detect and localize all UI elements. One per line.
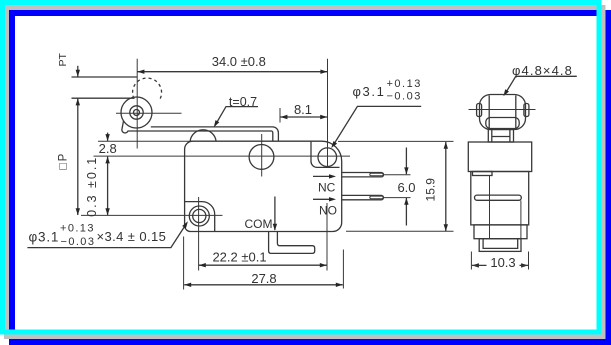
- svg-text:□P: □P: [58, 152, 70, 170]
- NC terminal extension: [384, 174, 411, 176]
- 15.9 down arrowhead: [444, 224, 448, 231]
- 34.0 right extension line: [327, 59, 329, 167]
- 8.1 left extension line: [279, 108, 281, 123]
- 15.9 up arrowhead: [444, 142, 448, 149]
- side view roller pins: [477, 104, 482, 117]
- OP up arrowhead: [76, 98, 80, 105]
- arrowheads for 22.2: [199, 263, 206, 267]
- phi3.1 bottom label leader: [27, 226, 185, 248]
- PT upper reference line: [72, 76, 138, 78]
- side view body middle section: [471, 172, 529, 225]
- NO terminal slot: [370, 196, 383, 199]
- 27.8 left extension: [183, 237, 185, 290]
- side view bottom terminal: [479, 239, 521, 252]
- svg-text:+0.13: +0.13: [387, 78, 422, 90]
- 2.8 down arrowhead: [105, 134, 109, 141]
- roller outer circle: [121, 97, 152, 128]
- NO leader line: [313, 198, 330, 200]
- svg-text:t=0.7: t=0.7: [229, 95, 257, 109]
- 0.3 down arrowhead: [105, 208, 109, 215]
- 15.9 top extension: [338, 140, 454, 142]
- COM terminal L-shape: [269, 232, 315, 254]
- NO terminal: [342, 195, 384, 199]
- NO terminal extension: [384, 197, 411, 199]
- svg-text:34.0 ±0.8: 34.0 ±0.8: [212, 54, 266, 69]
- arrowheads for 10.3: [472, 263, 479, 267]
- 15.9 bottom extension: [346, 230, 454, 232]
- side view roller centerline: [469, 109, 536, 111]
- side view roller holder: [486, 118, 519, 129]
- PT down arrowhead: [76, 70, 80, 77]
- svg-text:22.2 ±0.1: 22.2 ±0.1: [212, 250, 266, 265]
- side view internal line left: [489, 176, 491, 239]
- 0.3 up arrowhead: [105, 156, 109, 163]
- svg-text:−0.03: −0.03: [387, 91, 422, 103]
- 6.0 lower arrow stem: [405, 198, 407, 226]
- center hole vertical centerline: [261, 134, 263, 177]
- 10.3 right extension: [528, 252, 530, 270]
- 6.0 up arrowhead: [404, 198, 408, 205]
- arrowheads for 34.0: [137, 70, 144, 74]
- dimension 34.0 line: [137, 71, 327, 73]
- roller ring: [130, 106, 143, 119]
- datum centerline through holes: [94, 155, 351, 157]
- NO leader arrowhead: [329, 197, 336, 201]
- svg-text:φ4.8×4.8: φ4.8×4.8: [512, 63, 573, 78]
- dimension 15.9 stem: [445, 142, 447, 231]
- 22.2 right extension: [326, 203, 328, 271]
- phi3.1 top leader arrowhead: [331, 141, 337, 148]
- svg-text:27.8: 27.8: [251, 271, 276, 286]
- svg-text:+0.13: +0.13: [60, 223, 95, 235]
- side view roller: [480, 95, 526, 130]
- 10.3 left extension: [470, 252, 472, 270]
- roller vertical centerline / 34.0 left extension: [136, 59, 138, 149]
- center top hole: [249, 145, 274, 170]
- svg-text:PT: PT: [57, 53, 69, 67]
- t=0.7 leader arrowhead: [214, 120, 220, 127]
- NC terminal: [342, 173, 384, 177]
- side view small tab: [473, 172, 493, 176]
- OP dimension stem: [77, 99, 79, 215]
- NC leader arrowhead: [329, 174, 336, 178]
- svg-text:−0.03: −0.03: [61, 236, 96, 248]
- 6.0 down arrowhead: [404, 167, 408, 174]
- side view body lower section: [474, 225, 527, 239]
- internal boss around bottom-left mounting hole: [185, 202, 215, 232]
- svg-text:6.0: 6.0: [397, 180, 415, 195]
- svg-text:2.8: 2.8: [99, 141, 117, 156]
- OP down arrowhead: [76, 208, 80, 215]
- switch body outline: [185, 141, 342, 231]
- side view roller inner lines: [488, 96, 490, 130]
- internal boss around top-right hole: [311, 141, 340, 167]
- side view body upper section: [468, 142, 531, 172]
- svg-text:8.1: 8.1: [294, 102, 312, 117]
- plunger dome on body top: [190, 130, 216, 141]
- dimension 8.1 line: [280, 116, 327, 118]
- bottom-left mounting hole: [189, 206, 209, 226]
- lever arm bottom edge with left hook: [122, 121, 273, 141]
- svg-text:×3.4 ± 0.15: ×3.4 ± 0.15: [97, 229, 167, 244]
- roller pin: [134, 110, 140, 116]
- 6.0 upper arrow stem: [405, 148, 407, 175]
- COM leader line: [274, 197, 276, 231]
- 27.8 right extension: [342, 250, 344, 289]
- phi4.8 label leader: [505, 76, 577, 94]
- COM down arrowhead: [273, 224, 277, 231]
- PT lower reference line: [72, 97, 135, 99]
- mounting hole centerline horizontal: [81, 214, 223, 216]
- top-right hole: [318, 148, 337, 167]
- svg-text:NC: NC: [318, 181, 336, 195]
- dimension 22.2 line: [199, 264, 327, 266]
- svg-text:φ3.1: φ3.1: [29, 230, 60, 245]
- svg-text:COM: COM: [245, 217, 273, 231]
- NC terminal slot: [370, 173, 383, 176]
- dimension 10.3 line: [472, 264, 528, 266]
- svg-text:φ3.1: φ3.1: [353, 84, 386, 99]
- dimension 27.8 line: [184, 284, 343, 286]
- t=0.7 label leader: [215, 107, 258, 126]
- 0.3 dimension stem: [107, 157, 109, 215]
- svg-text:NO: NO: [319, 204, 337, 218]
- svg-text:15.9: 15.9: [424, 178, 438, 202]
- mounting hole centerline vertical / 22.2 left extension: [198, 197, 200, 271]
- phi3.1 top label leader: [334, 106, 422, 144]
- phi4.8 leader arrowhead: [503, 89, 509, 96]
- NC leader line: [313, 175, 330, 177]
- body-top extension line left: [98, 140, 193, 142]
- side view slot bar: [475, 195, 522, 200]
- side view plunger: [488, 130, 513, 143]
- side view internal line right: [520, 201, 522, 239]
- PT dimension stem: [77, 66, 79, 77]
- text 10.3 background: [487, 255, 520, 269]
- 2.8 dimension stem: [107, 133, 109, 141]
- dashed free-position arc: [133, 78, 162, 100]
- arrowheads for 27.8: [184, 283, 191, 287]
- phi3.1 bottom leader arrowhead: [182, 221, 188, 228]
- arrowheads for 8.1: [280, 115, 287, 119]
- svg-text:0.3 ±0.1: 0.3 ±0.1: [85, 156, 99, 217]
- lever arm top edge with bent tip: [151, 127, 279, 141]
- roller horizontal centerline: [116, 112, 182, 114]
- svg-text:10.3: 10.3: [490, 255, 515, 270]
